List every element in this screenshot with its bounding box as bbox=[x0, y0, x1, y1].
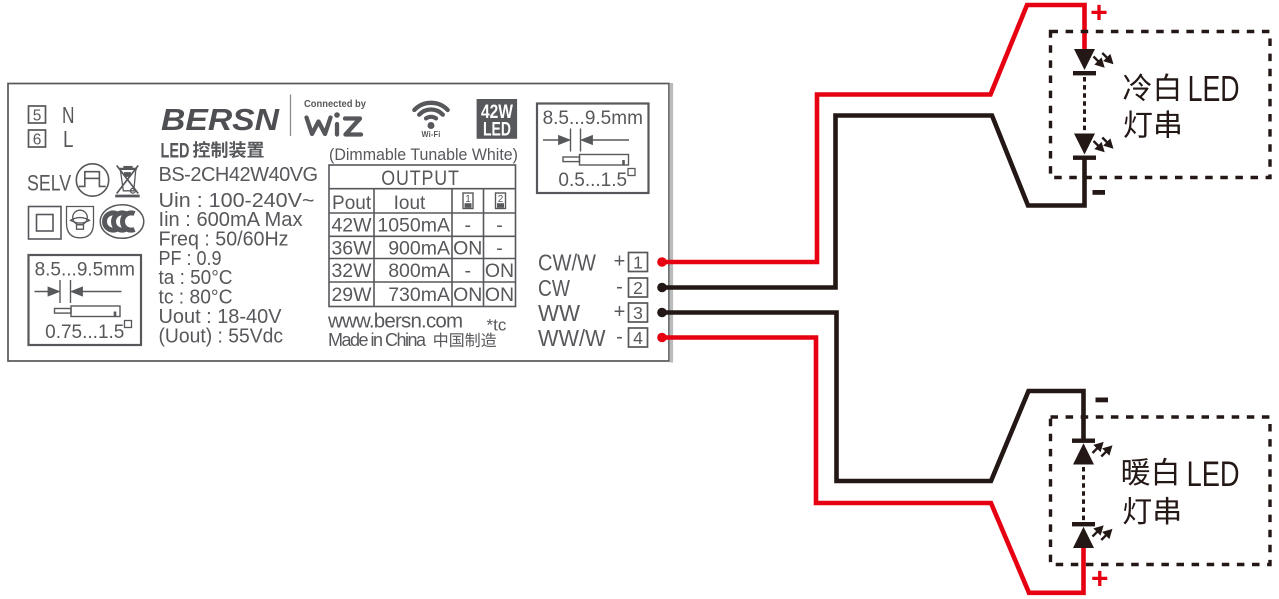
divider line bbox=[290, 95, 292, 137]
svg-text:800mA: 800mA bbox=[388, 260, 450, 282]
wire strip gauge (input) bbox=[29, 255, 142, 345]
junction dot terminal 3 bbox=[657, 308, 667, 318]
OUTPUT table grid bbox=[329, 165, 516, 307]
svg-text:4: 4 bbox=[633, 328, 643, 348]
driver label box outline bbox=[8, 84, 669, 362]
svg-text:3: 3 bbox=[633, 303, 643, 323]
CCC certification mark bbox=[100, 205, 144, 239]
svg-text:(Dimmable Tunable White): (Dimmable Tunable White) bbox=[329, 145, 518, 164]
svg-text:CW: CW bbox=[538, 275, 570, 301]
LED D3 (warm) bbox=[1072, 439, 1095, 443]
svg-text:Connected by: Connected by bbox=[304, 98, 366, 110]
svg-text:-: - bbox=[496, 237, 503, 259]
class II insulation symbol bbox=[29, 207, 62, 240]
svg-text:BS-2CH42W40VG: BS-2CH42W40VG bbox=[159, 164, 318, 186]
svg-text:29W: 29W bbox=[331, 284, 372, 306]
svg-text:LED: LED bbox=[1188, 68, 1240, 109]
svg-text:SELV: SELV bbox=[27, 172, 72, 196]
svg-text:LED: LED bbox=[483, 119, 511, 140]
svg-text:ON: ON bbox=[453, 237, 482, 259]
Wi-Fi icon bbox=[414, 103, 447, 119]
wire strip gauge (output) bbox=[537, 104, 649, 194]
svg-text:-: - bbox=[465, 215, 472, 237]
LED D2 (cold) bbox=[1074, 134, 1095, 155]
cold white label line2 bbox=[1124, 111, 1152, 138]
svg-text:Made in China: Made in China bbox=[328, 330, 427, 350]
cold white LED string box bbox=[1051, 32, 1271, 178]
svg-text:Pout: Pout bbox=[332, 193, 372, 214]
svg-text:ON: ON bbox=[453, 284, 482, 306]
svg-text:6: 6 bbox=[33, 132, 42, 149]
junction dot terminal 4 bbox=[657, 333, 667, 343]
luminaire symbol bbox=[67, 207, 94, 238]
LED D4 (warm) bbox=[1072, 522, 1095, 526]
LED D1 (cold) bbox=[1074, 49, 1095, 70]
terminal 5 (N) bbox=[29, 106, 46, 123]
polarity - (warm) bbox=[1096, 398, 1109, 403]
svg-text:ON: ON bbox=[485, 284, 514, 306]
series link (warm) bbox=[1082, 467, 1085, 521]
svg-text:900mA: 900mA bbox=[388, 237, 450, 259]
series link (cold) bbox=[1083, 77, 1086, 133]
svg-text:+: + bbox=[614, 251, 626, 273]
svg-text:Iout: Iout bbox=[394, 193, 426, 214]
wire CW/W+ (red) bbox=[662, 5, 1085, 262]
warm white LED string box bbox=[1051, 417, 1271, 565]
terminal 6 (L) bbox=[29, 130, 46, 147]
svg-text:LED: LED bbox=[161, 140, 190, 163]
svg-text:1050mA: 1050mA bbox=[377, 215, 450, 237]
cold white label line1 bbox=[1124, 73, 1152, 101]
warm white label line1 bbox=[1123, 458, 1150, 485]
svg-text:8.5...9.5mm: 8.5...9.5mm bbox=[543, 108, 643, 129]
svg-text:-: - bbox=[616, 326, 623, 348]
svg-text:ON: ON bbox=[485, 260, 514, 282]
svg-text:-: - bbox=[616, 276, 623, 298]
OUTPUT table header bbox=[381, 166, 459, 190]
svg-text:36W: 36W bbox=[331, 237, 372, 259]
svg-text:+: + bbox=[614, 301, 626, 323]
svg-text:WW/W: WW/W bbox=[538, 325, 606, 351]
polarity - (cold) bbox=[1093, 190, 1106, 195]
svg-text:WW: WW bbox=[538, 300, 580, 326]
svg-text:OUTPUT: OUTPUT bbox=[381, 166, 459, 190]
dip switch icon 1 bbox=[463, 193, 473, 209]
junction dot terminal 2 bbox=[657, 283, 667, 293]
svg-text:1: 1 bbox=[633, 252, 643, 272]
svg-text:L: L bbox=[63, 126, 74, 152]
svg-text:CW/W: CW/W bbox=[538, 250, 596, 276]
SELV marking bbox=[27, 172, 72, 196]
svg-text:2: 2 bbox=[633, 278, 643, 298]
svg-text:+: + bbox=[1090, 0, 1108, 29]
WiZ logo bbox=[307, 118, 362, 135]
42W LED badge bbox=[477, 99, 517, 139]
svg-text:730mA: 730mA bbox=[388, 284, 450, 306]
svg-text:*tc: *tc bbox=[487, 316, 507, 335]
wire WW+ (black) bbox=[662, 313, 1084, 482]
svg-text:5: 5 bbox=[33, 108, 42, 125]
warm white label line2 bbox=[1123, 497, 1151, 524]
svg-text:N: N bbox=[62, 102, 75, 128]
WEEE bin symbol bbox=[115, 166, 140, 197]
svg-text:42W: 42W bbox=[331, 215, 372, 237]
svg-text:-: - bbox=[496, 215, 503, 237]
junction dot terminal 1 bbox=[657, 257, 667, 267]
svg-text:+: + bbox=[1091, 563, 1109, 596]
svg-text:LED: LED bbox=[1187, 454, 1240, 494]
svg-text:32W: 32W bbox=[331, 260, 372, 282]
svg-text:-: - bbox=[465, 260, 472, 282]
independent control gear symbol bbox=[76, 164, 108, 196]
svg-text:Wi-Fi: Wi-Fi bbox=[422, 129, 441, 139]
wire WW/W- (red) bbox=[662, 338, 1084, 593]
svg-text:8.5...9.5mm: 8.5...9.5mm bbox=[35, 260, 135, 281]
dip switch icon 2 bbox=[496, 193, 506, 209]
wire CW- (black) bbox=[662, 116, 1085, 288]
svg-text:0.75...1.5: 0.75...1.5 bbox=[45, 322, 124, 343]
svg-text:2: 2 bbox=[498, 194, 504, 205]
svg-text:BERSN: BERSN bbox=[161, 102, 280, 137]
svg-text:0.5...1.5: 0.5...1.5 bbox=[558, 170, 627, 191]
svg-text:(Uout) : 55Vdc: (Uout) : 55Vdc bbox=[159, 325, 284, 347]
svg-text:1: 1 bbox=[465, 194, 471, 205]
